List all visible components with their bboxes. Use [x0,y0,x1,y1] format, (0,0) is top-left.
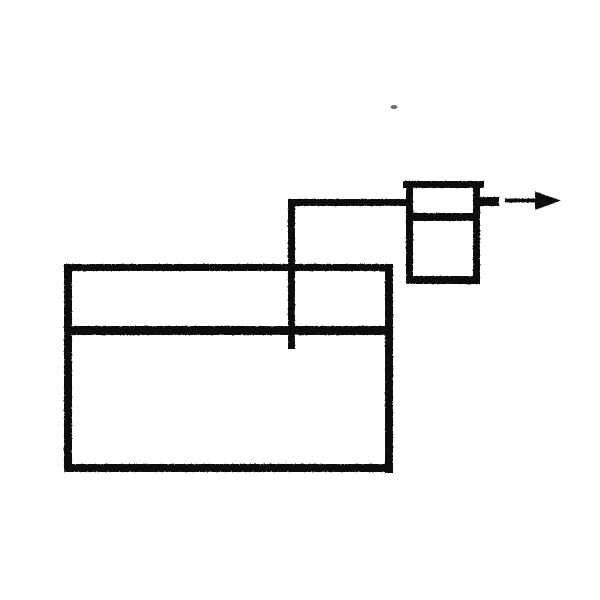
trap vessel V1 right wall [473,188,480,284]
trap vessel V1 bottom edge [406,276,480,284]
trap vessel V1 left wall [406,188,413,284]
outlet arrow head [535,192,561,211]
tank T1 left wall [64,264,72,472]
outlet arrow shaft [505,199,538,203]
tank T1 right wall [385,264,393,473]
tank T1 top edge [64,264,393,271]
horizontal pipe wire [288,199,406,206]
speck artifact [391,105,398,109]
dip tube vertical pipe [288,199,295,349]
trap vessel V1 inner level line [406,213,480,221]
tank T1 bottom edge [64,464,393,472]
trap vessel V1 top lid [403,181,484,188]
outlet stub [480,197,499,206]
tank T1 liquid level line [64,326,393,335]
